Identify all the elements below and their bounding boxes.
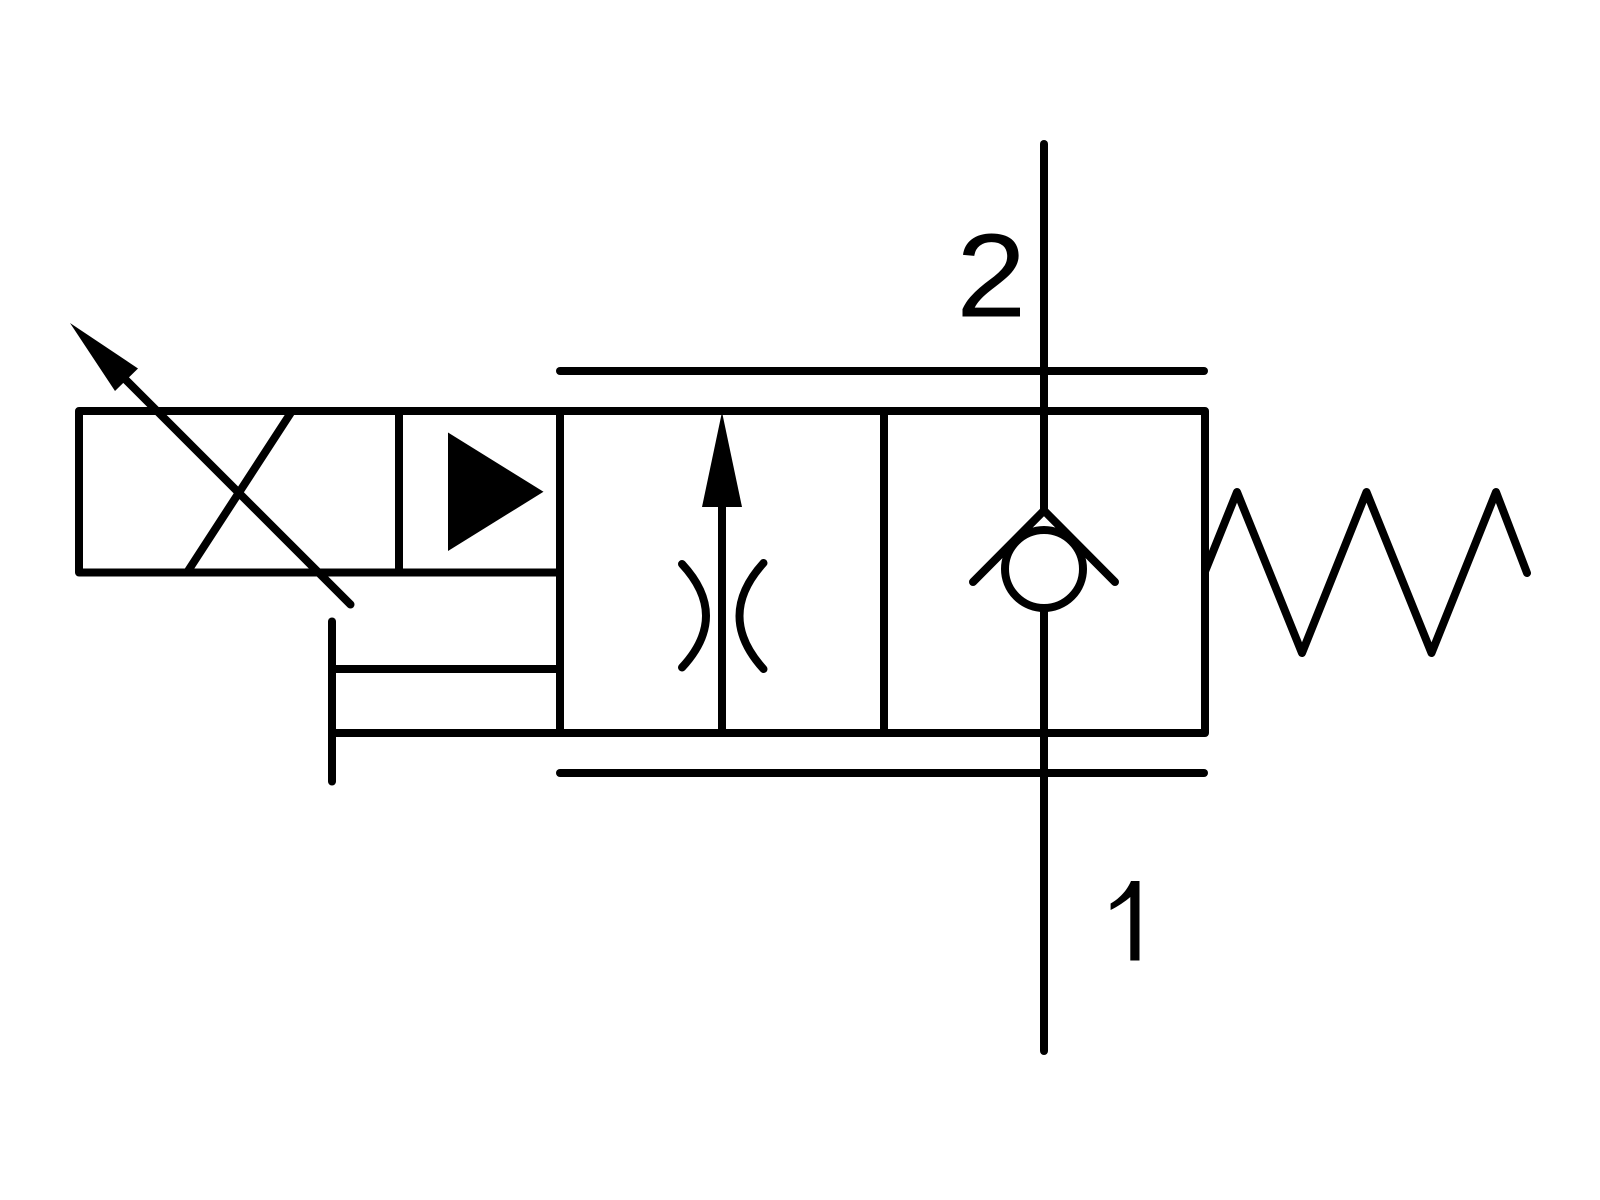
flow arrow line [718, 500, 726, 733]
valve body envelope [560, 411, 1205, 733]
label port 1 [1111, 881, 1140, 961]
wire: port line upper segment (port 2) [1040, 144, 1048, 511]
pilot line lower (bottom edge extension) [332, 729, 564, 737]
proportional solenoid box [79, 411, 399, 573]
throttle arc right [740, 563, 764, 669]
pilot end bar [328, 622, 336, 782]
valve position divider [880, 411, 888, 733]
flow arrowhead [702, 412, 742, 507]
spring [1205, 492, 1527, 653]
adjustment arrowhead [70, 323, 138, 391]
upper infinite-position bar [560, 367, 1204, 375]
pilot triangle [448, 433, 544, 552]
pilot line upper [332, 665, 560, 673]
pilot operator box [399, 411, 560, 573]
label port 2 [963, 234, 1021, 317]
check valve seat [973, 511, 1115, 583]
adjustment arrow shaft [118, 372, 351, 605]
throttle arc left [682, 564, 706, 668]
lower infinite-position bar [560, 769, 1204, 777]
check valve ball [1005, 530, 1083, 608]
wire: port line lower segment (port 1) [1040, 608, 1048, 1051]
solenoid diagonal [187, 411, 292, 573]
